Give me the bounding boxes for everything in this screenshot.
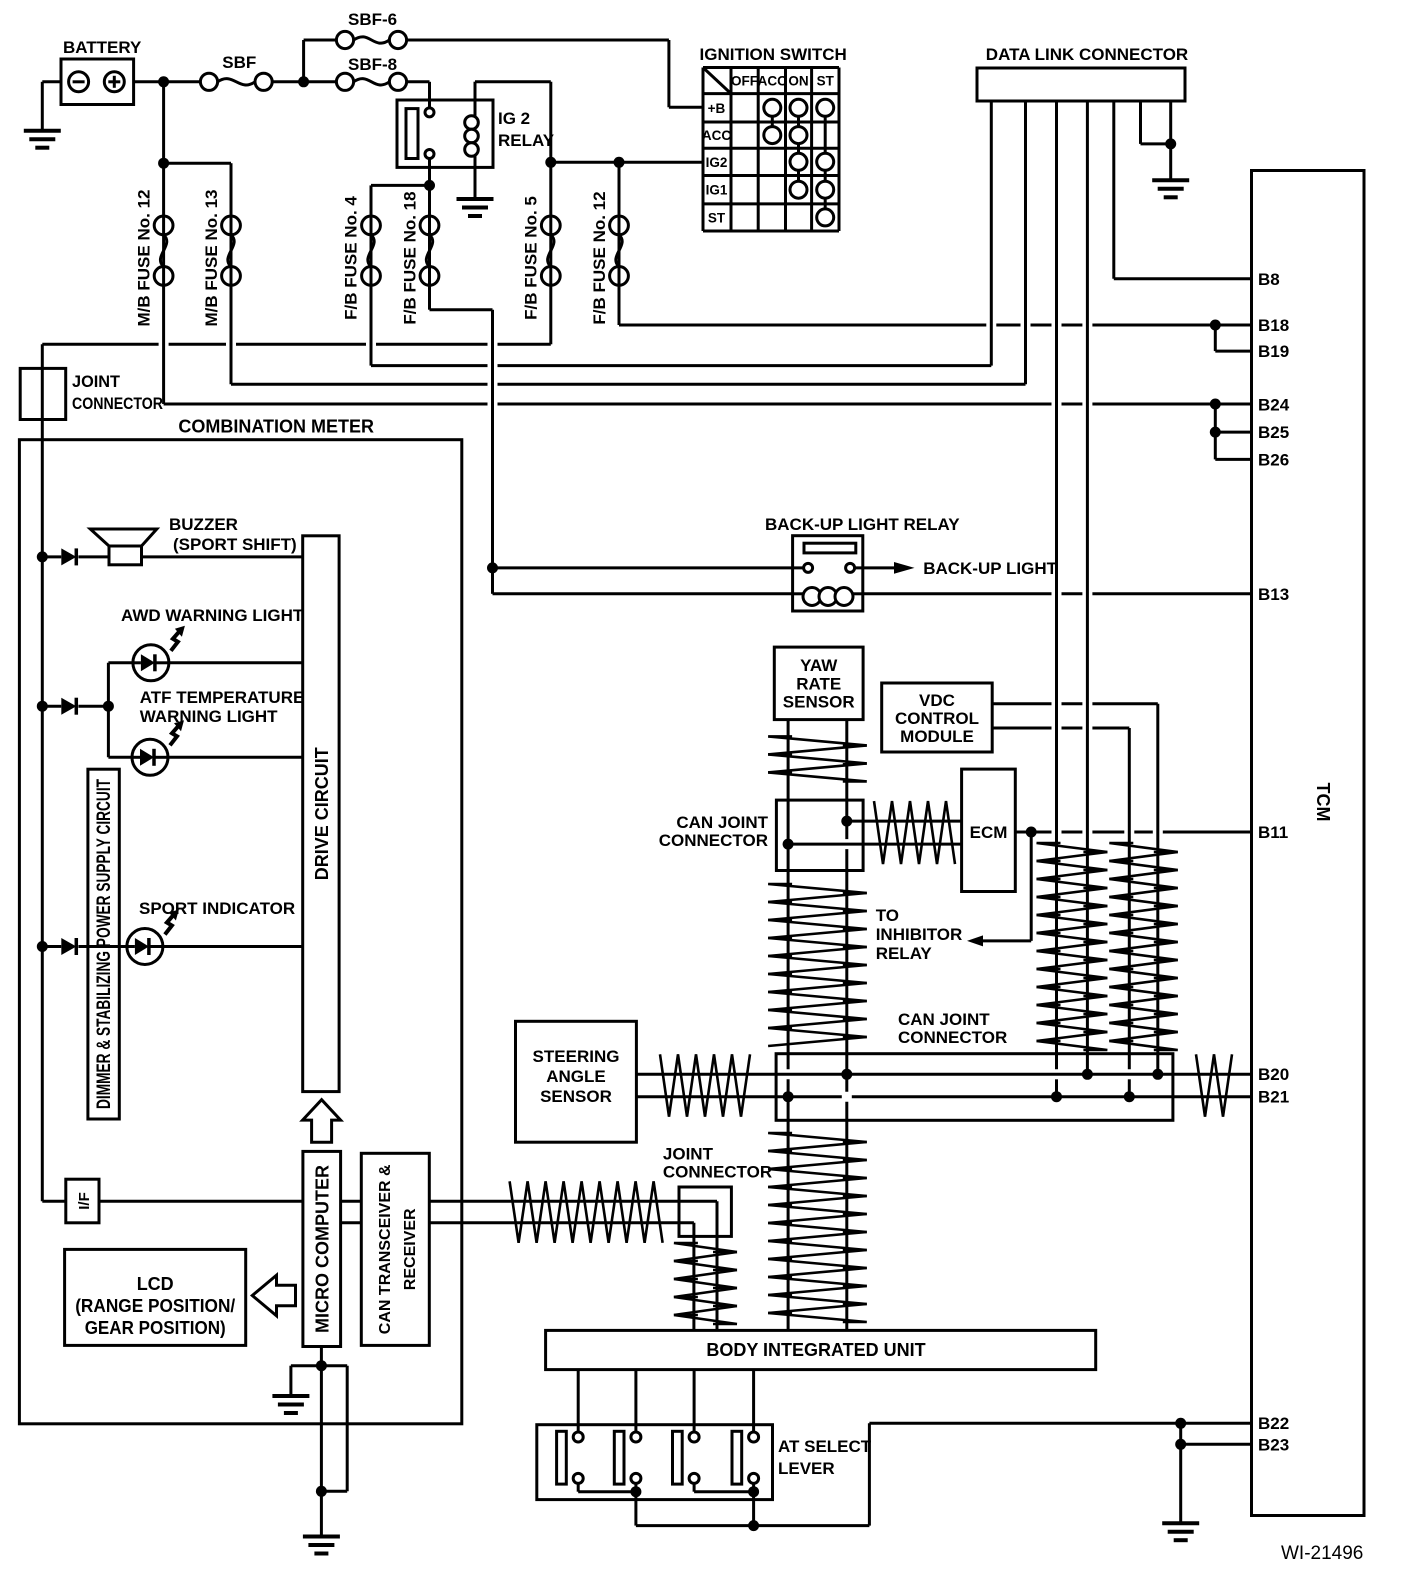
svg-text:SBF-6: SBF-6: [348, 10, 397, 29]
svg-text:COMBINATION METER: COMBINATION METER: [178, 417, 374, 437]
svg-text:VDC: VDC: [919, 691, 955, 710]
svg-text:RATE: RATE: [796, 675, 841, 694]
ground relay IG2: [457, 197, 494, 201]
wire to backup relay: [493, 566, 804, 569]
node junction MC ground: [316, 1360, 327, 1371]
wire up to SBF-6: [302, 40, 305, 82]
twisted pair steering: [660, 1054, 750, 1116]
svg-text:B23: B23: [1258, 1435, 1289, 1454]
node AT out junction: [748, 1520, 759, 1531]
node DLC ground junction: [1165, 138, 1176, 149]
svg-text:I/F: I/F: [76, 1192, 93, 1210]
arrow drive-circuit up: [303, 1100, 341, 1143]
node junction buzzer: [37, 551, 48, 562]
svg-text:M/B FUSE No. 13: M/B FUSE No. 13: [202, 190, 221, 327]
svg-text:CONNECTOR: CONNECTOR: [898, 1028, 1007, 1047]
svg-text:CONNECTOR: CONNECTOR: [72, 394, 163, 413]
wire sw3-sw4: [693, 1483, 696, 1491]
wire to inhibitor relay: [1030, 832, 1033, 941]
wire junction to FB4: [371, 184, 430, 187]
node junction SBF out: [298, 76, 309, 87]
wire B26: [1214, 432, 1217, 459]
wire MC down pair: [320, 1366, 323, 1492]
svg-text:B11: B11: [1258, 823, 1288, 842]
wire relay contact down: [428, 159, 431, 217]
wire MB13 top: [164, 162, 231, 165]
node sw2 junction: [630, 1486, 641, 1497]
twisted pair ECM: [874, 801, 955, 864]
wire I/F to micro computer: [99, 1200, 303, 1203]
svg-text:F/B FUSE No. 5: F/B FUSE No. 5: [522, 196, 541, 320]
svg-text:ANGLE: ANGLE: [546, 1067, 606, 1086]
svg-text:CAN TRANSCEIVER &: CAN TRANSCEIVER &: [377, 1164, 394, 1334]
svg-text:IG 2: IG 2: [498, 109, 530, 128]
backup relay contact pins: [804, 563, 813, 572]
LCD box: [65, 1249, 246, 1345]
svg-text:B19: B19: [1258, 342, 1289, 361]
node junction B23: [1175, 1439, 1186, 1450]
svg-text:SBF: SBF: [222, 53, 256, 72]
CAN transceiver receiver box: [361, 1153, 429, 1345]
diode buzzer: [61, 548, 76, 565]
svg-text:ST: ST: [817, 74, 835, 89]
node VDC-L to bus: [1124, 1091, 1135, 1102]
svg-text:RECEIVER: RECEIVER: [402, 1208, 419, 1290]
node junction FB12: [614, 157, 625, 168]
svg-text:AT SELECT: AT SELECT: [778, 1437, 872, 1456]
node junction B24: [1210, 399, 1221, 410]
svg-text:ST: ST: [708, 210, 726, 225]
node junction battery-MB: [158, 76, 169, 87]
wire B13 to TCM: [863, 592, 1052, 595]
svg-text:F/B FUSE No. 4: F/B FUSE No. 4: [342, 196, 361, 320]
svg-text:INHIBITOR: INHIBITOR: [876, 925, 963, 944]
wire SBF-6 to ignition +B: [407, 39, 669, 42]
DLC pin1 wire: [990, 101, 993, 366]
svg-text:ECM: ECM: [970, 823, 1008, 842]
svg-text:RELAY: RELAY: [876, 944, 933, 963]
svg-text:CAN JOINT: CAN JOINT: [676, 813, 768, 832]
wire B24 into TCM: [1215, 403, 1251, 406]
svg-text:M/B FUSE No. 12: M/B FUSE No. 12: [135, 190, 154, 327]
relay IG2 contact pins: [425, 108, 434, 117]
wire B11: [1015, 831, 1051, 834]
wire B23 ground: [1179, 1444, 1182, 1521]
svg-text:TO: TO: [876, 906, 899, 925]
DLC pin3 wire: [1055, 101, 1058, 1069]
wire FB5 to joint connector: [549, 285, 552, 344]
svg-text:YAW: YAW: [800, 656, 838, 675]
yaw rail right: [845, 720, 848, 840]
backup relay coil: [793, 592, 803, 595]
wire MB13 to DLC pin2: [230, 285, 233, 384]
svg-text:SPORT INDICATOR: SPORT INDICATOR: [139, 899, 295, 918]
VDC control module box: [882, 683, 993, 752]
twisted pair joint connector down: [674, 1243, 737, 1252]
DLC pin7 to ground: [1169, 101, 1172, 179]
svg-text:CAN JOINT: CAN JOINT: [898, 1010, 990, 1029]
svg-text:CONNECTOR: CONNECTOR: [659, 831, 768, 850]
svg-text:CONTROL: CONTROL: [895, 709, 979, 728]
svg-text:ACC: ACC: [702, 128, 731, 143]
wire AT lever to B22: [754, 1524, 870, 1527]
steering angle sensor box: [516, 1021, 637, 1142]
svg-text:AWD WARNING LIGHT: AWD WARNING LIGHT: [121, 606, 304, 625]
node junction B18: [1210, 320, 1221, 331]
svg-text:RELAY: RELAY: [498, 131, 555, 150]
node yaw left to ECM: [783, 839, 794, 850]
svg-text:JOINT: JOINT: [663, 1145, 714, 1164]
relay IG2 box: [397, 100, 493, 167]
wire IG2 row: [551, 161, 703, 164]
wire FB4 to DLC pin1: [370, 285, 373, 365]
node junction LED split: [103, 701, 114, 712]
node DLC pin4 to CAN-H: [1082, 1069, 1093, 1080]
wire VDC CAN-H: [992, 702, 1051, 705]
svg-text:B8: B8: [1258, 270, 1280, 289]
wire ECM CAN-H: [847, 820, 962, 823]
svg-text:BATTERY: BATTERY: [63, 38, 142, 57]
svg-text:BODY INTEGRATED UNIT: BODY INTEGRATED UNIT: [706, 1340, 925, 1360]
svg-text:IG2: IG2: [706, 155, 728, 170]
svg-text:WARNING LIGHT: WARNING LIGHT: [140, 707, 278, 726]
svg-text:CONNECTOR: CONNECTOR: [663, 1163, 772, 1182]
svg-text:B20: B20: [1258, 1065, 1289, 1084]
svg-text:TCM: TCM: [1313, 783, 1333, 822]
svg-text:LEVER: LEVER: [778, 1459, 835, 1478]
ground battery: [24, 129, 61, 133]
wire B23: [1179, 1423, 1182, 1444]
twisted pair VDC CAN: [1109, 843, 1178, 852]
svg-text:IG1: IG1: [706, 183, 728, 198]
wire FB12 to B18: [618, 285, 621, 325]
wire battery negative to ground: [42, 80, 61, 83]
svg-text:OFF: OFF: [731, 74, 758, 89]
node junction sport row: [37, 941, 48, 952]
relay IG2 coil: [474, 82, 477, 116]
wire CAN bus B20: [636, 1073, 1251, 1076]
wire ECM CAN-L: [788, 843, 962, 846]
drive circuit box: [303, 536, 339, 1092]
wire VDC CAN-L: [992, 727, 1051, 730]
svg-text:MODULE: MODULE: [900, 727, 974, 746]
wire MB12 to B24: [162, 285, 165, 404]
svg-text:DRIVE CIRCUIT: DRIVE CIRCUIT: [312, 747, 332, 880]
arrow LCD left: [252, 1275, 295, 1316]
diode AWD/ATF: [61, 698, 76, 715]
dimmer stabilizing power supply circuit box: [88, 769, 119, 1119]
svg-text:(RANGE POSITION/: (RANGE POSITION/: [75, 1296, 235, 1316]
twisted pair B20 B21: [1196, 1054, 1232, 1116]
micro computer box: [303, 1151, 341, 1346]
wire sw4 down: [752, 1492, 755, 1526]
ground bottom: [303, 1535, 340, 1539]
svg-text:WI-21496: WI-21496: [1281, 1543, 1363, 1564]
wire CAN H meter: [341, 1200, 362, 1203]
svg-text:LCD: LCD: [137, 1274, 174, 1294]
svg-text:SENSOR: SENSOR: [783, 693, 855, 712]
twisted pair DLC CAN: [1037, 843, 1108, 852]
wire B25: [1214, 404, 1217, 432]
svg-text:+B: +B: [708, 101, 726, 116]
svg-text:B13: B13: [1258, 585, 1289, 604]
svg-text:DATA LINK CONNECTOR: DATA LINK CONNECTOR: [986, 45, 1188, 64]
diode sport: [61, 938, 76, 955]
wire CAN bus B21: [636, 1095, 841, 1098]
node junction B11-inhibitor: [1026, 827, 1037, 838]
wire coil to IG2 junction: [475, 80, 551, 83]
wire micro computer ground: [320, 1347, 323, 1366]
wire SBF-8 to relay contact: [407, 80, 430, 83]
arrow to back-up light: [855, 566, 894, 569]
svg-text:STEERING: STEERING: [533, 1047, 620, 1066]
svg-text:B22: B22: [1258, 1414, 1289, 1433]
DLC pin6 wire: [1139, 101, 1142, 144]
DLC pin4 wire: [1086, 101, 1089, 1074]
svg-text:B21: B21: [1258, 1088, 1289, 1107]
svg-text:BUZZER: BUZZER: [169, 515, 238, 534]
wire SBF to junction: [272, 80, 336, 83]
node junction MB12-MB13: [158, 158, 169, 169]
joint connector top-left box: [20, 368, 65, 419]
wire FB5 feed down to combination meter: [41, 344, 44, 557]
AT select lever box: [537, 1425, 773, 1500]
wire B18 into TCM: [1215, 324, 1251, 327]
twisted pair yaw mid: [768, 884, 867, 893]
DLC pin5 to B8: [1112, 101, 1115, 279]
DLC pin2 wire: [1024, 101, 1027, 384]
twisted pair meter CAN: [510, 1181, 663, 1243]
yaw rail left: [787, 720, 790, 1070]
wire comb meter left rail: [41, 557, 44, 1201]
svg-text:SBF-8: SBF-8: [348, 55, 397, 74]
ground micro computer: [272, 1394, 309, 1398]
wire MC ground left: [291, 1364, 322, 1367]
svg-text:B26: B26: [1258, 450, 1289, 469]
node yaw right to ECM: [841, 816, 852, 827]
svg-text:JOINT: JOINT: [72, 372, 121, 391]
wire sw1-sw2: [577, 1483, 580, 1491]
wire B13 left: [491, 568, 494, 594]
node sw4 junction: [748, 1486, 759, 1497]
svg-text:IGNITION SWITCH: IGNITION SWITCH: [700, 45, 847, 64]
node junction B25: [1210, 427, 1221, 438]
wire B19: [1214, 325, 1217, 351]
twisted pair yaw upper: [768, 736, 867, 745]
svg-text:ON: ON: [788, 74, 808, 89]
ECM box: [962, 769, 1016, 891]
node VDC-H to bus: [1152, 1069, 1163, 1080]
wire to bottom ground: [320, 1491, 323, 1535]
node junction ATF row: [37, 701, 48, 712]
node junction backup: [487, 562, 498, 573]
body integrated unit box: [546, 1330, 1096, 1369]
BIU bottom pins: [577, 1370, 580, 1432]
svg-text:SENSOR: SENSOR: [540, 1087, 612, 1106]
wire sw2 down: [634, 1492, 637, 1526]
TCM box: [1252, 171, 1365, 1516]
wire FB18 down: [428, 285, 431, 309]
node junction FB4-FB18: [424, 180, 435, 191]
svg-text:ATF TEMPERATURE: ATF TEMPERATURE: [140, 688, 305, 707]
svg-text:GEAR POSITION): GEAR POSITION): [85, 1318, 226, 1338]
wire CAN L meter: [341, 1221, 362, 1224]
yaw rate sensor box: [774, 647, 863, 720]
ground B23: [1162, 1521, 1199, 1525]
svg-text:(SPORT SHIFT): (SPORT SHIFT): [173, 535, 297, 554]
node DLC pin3 to CAN-L: [1051, 1091, 1062, 1102]
svg-text:BACK-UP LIGHT RELAY: BACK-UP LIGHT RELAY: [765, 515, 960, 534]
node yaw-right bus: [841, 1069, 852, 1080]
svg-text:B18: B18: [1258, 316, 1289, 335]
svg-text:MICRO COMPUTER: MICRO COMPUTER: [313, 1165, 333, 1333]
twisted pair yaw lower: [768, 1133, 867, 1142]
node junction B22: [1175, 1418, 1186, 1429]
svg-text:F/B FUSE No. 12: F/B FUSE No. 12: [590, 191, 609, 324]
svg-text:B25: B25: [1258, 423, 1289, 442]
svg-text:DIMMER & STABILIZING POWER SUP: DIMMER & STABILIZING POWER SUPPLY CIRCUI…: [94, 779, 115, 1109]
node junction FB5: [545, 157, 556, 168]
wire battery positive: [134, 80, 201, 83]
svg-text:F/B FUSE No. 18: F/B FUSE No. 18: [401, 191, 420, 324]
wire LED split vertical: [107, 663, 110, 758]
node junction bottom ground: [316, 1486, 327, 1497]
ground DLC: [1152, 178, 1189, 182]
svg-text:BACK-UP LIGHT: BACK-UP LIGHT: [923, 559, 1057, 578]
node yaw-left bus: [783, 1091, 794, 1102]
I/F box: [66, 1179, 99, 1223]
svg-text:B24: B24: [1258, 396, 1290, 415]
svg-text:ACC: ACC: [758, 74, 787, 89]
